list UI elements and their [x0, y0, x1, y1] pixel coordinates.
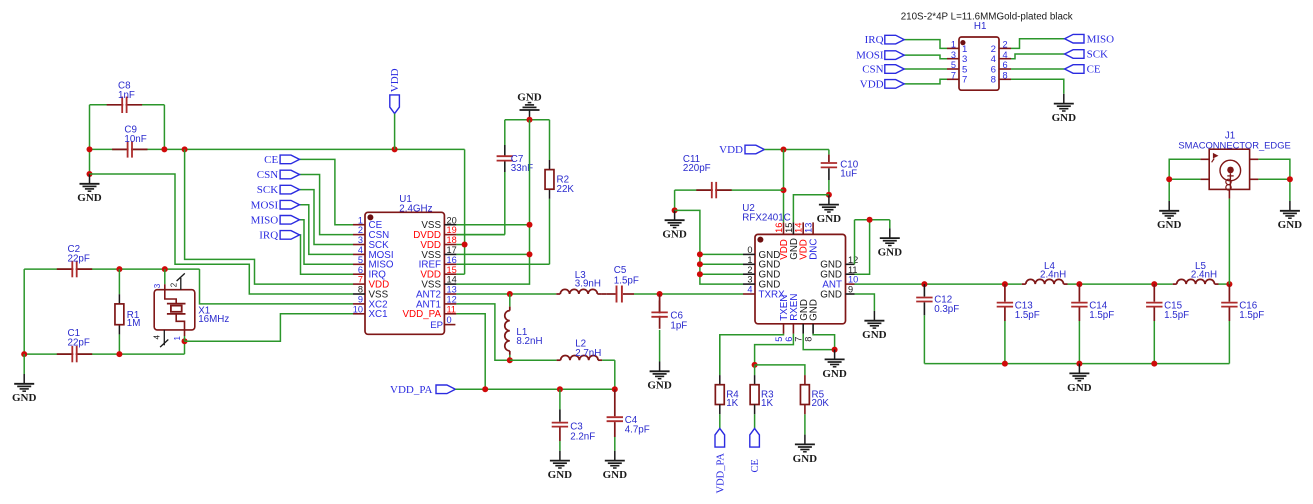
net flag VDD_PA bottom: [715, 428, 725, 447]
svg-text:8: 8: [358, 285, 363, 295]
svg-text:MISO: MISO: [1087, 33, 1115, 45]
wire U2 pin7 GND: [803, 334, 834, 350]
svg-text:EP: EP: [430, 320, 443, 331]
svg-text:GND: GND: [793, 453, 818, 465]
U1 pin 19 DVDD: [444, 234, 456, 236]
wire ANT1 to L2: [456, 304, 509, 360]
svg-text:7: 7: [962, 75, 967, 86]
node GND top junction: [527, 117, 533, 123]
U2 pin 3 GND: [743, 283, 755, 285]
connector J1 SMACONNECTOR_EDGE: [1209, 149, 1249, 189]
svg-text:GND: GND: [1067, 382, 1092, 394]
capacitor C15: [1153, 284, 1155, 302]
capacitor C3: [559, 389, 561, 409]
node junction R3/R5: [752, 362, 758, 368]
svg-text:16MHz: 16MHz: [198, 314, 229, 325]
ground GND bottom left: [23, 374, 25, 384]
capacitor C10: [828, 150, 830, 155]
U2 pin 13 DNC: [812, 222, 814, 234]
svg-text:11: 11: [447, 304, 457, 314]
svg-text:VDD: VDD: [719, 144, 743, 156]
svg-text:2.4nH: 2.4nH: [1040, 269, 1066, 280]
capacitor C4: [614, 389, 616, 416]
svg-text:17: 17: [447, 245, 457, 255]
node junction C12: [921, 281, 927, 287]
inductor L2: [510, 359, 557, 361]
H1 pin 7: [947, 78, 959, 80]
inductor L5: [1177, 279, 1215, 284]
net flag VDD_PA left: [436, 385, 455, 394]
resistor R5: [804, 375, 806, 385]
capacitor C12: [923, 284, 925, 297]
wire XC1 corner to X1 pin1: [184, 341, 186, 354]
U1 pin 9 XC2: [353, 303, 365, 305]
node junction J1 left: [1166, 176, 1172, 182]
U1 pin 17 VSS: [444, 253, 456, 255]
svg-text:2.4nH: 2.4nH: [1191, 269, 1217, 280]
wire rail L5 to J1 drop: [1219, 283, 1230, 285]
resistor R4: [719, 335, 721, 375]
svg-text:GND: GND: [548, 469, 573, 481]
wire XC2/XC1 left vertical: [23, 269, 25, 354]
svg-text:1K: 1K: [726, 398, 738, 409]
net flag MOSI header: [904, 55, 947, 59]
U1 pin 2 CSN: [353, 234, 365, 236]
node junction pin11 drop: [482, 386, 488, 392]
ground GND below C11: [674, 210, 676, 220]
wire VDD rail: [90, 148, 128, 150]
svg-text:2: 2: [747, 265, 752, 275]
wire RF line ANT2: [456, 293, 556, 295]
svg-text:10: 10: [353, 304, 363, 314]
wire junction to R5: [755, 365, 805, 375]
ground GND below pins 7/8: [834, 350, 836, 360]
svg-text:6: 6: [1003, 60, 1008, 70]
node junction bus C13: [1002, 361, 1008, 367]
wire H1 pin8 to GND: [1011, 79, 1064, 94]
svg-text:0: 0: [447, 315, 452, 325]
svg-text:GND: GND: [647, 380, 672, 392]
U1 pin 8 VSS: [353, 293, 365, 295]
ground GND header: [1063, 94, 1065, 104]
svg-text:1.5pF: 1.5pF: [1164, 310, 1189, 321]
node junction bus C14: [1076, 361, 1082, 367]
node junction pin11 rail: [867, 217, 873, 223]
resistor R1: [118, 269, 120, 294]
ground GND J1 left: [1168, 201, 1170, 211]
node junction pin20: [527, 222, 533, 228]
svg-text:GND: GND: [822, 368, 847, 380]
node junction pin0: [697, 251, 703, 257]
svg-text:2.4GHz: 2.4GHz: [399, 203, 432, 214]
H1 pin 3: [947, 58, 959, 60]
node XC2 junction R1: [116, 266, 122, 272]
node GND junction bottom left: [21, 351, 27, 357]
svg-text:VDD_PA: VDD_PA: [715, 453, 726, 494]
wire C5 to U2 TXRX: [634, 293, 743, 295]
ground GND right of U2: [889, 228, 891, 238]
svg-text:9: 9: [848, 285, 853, 295]
capacitor C14: [1078, 284, 1080, 302]
wire MOSI to U1 pin4: [300, 205, 354, 255]
capacitor C7: [504, 145, 506, 156]
svg-text:GND: GND: [817, 213, 842, 225]
wire U2 pin1: [700, 263, 743, 265]
svg-text:VDD_PA: VDD_PA: [403, 309, 442, 320]
wire U2 pin6 RXEN to R3: [755, 334, 794, 365]
resistor R3: [754, 365, 756, 375]
U1 pin 10 XC1: [353, 313, 365, 315]
wire MISO to U1 pin5: [300, 220, 354, 264]
U2 pin 12 GND: [846, 263, 855, 265]
node junction L1 top: [507, 291, 513, 297]
U1 pin 5 MISO: [353, 263, 365, 265]
ground GND bus: [1078, 364, 1080, 374]
ground GND below C6: [659, 362, 661, 372]
svg-text:GND: GND: [517, 92, 542, 104]
svg-text:1K: 1K: [761, 398, 773, 409]
wire VDD to U1 VDD pin7: [185, 149, 353, 284]
wire GND rail drop: [889, 220, 891, 229]
U1 pin 4 MOSI: [353, 253, 365, 255]
svg-text:GND: GND: [12, 392, 37, 404]
U1 pin 1 CE: [353, 224, 365, 226]
svg-text:4: 4: [153, 335, 162, 340]
wire GND mid vertical to VSS pins: [456, 120, 529, 284]
svg-text:5: 5: [774, 337, 784, 342]
svg-text:11: 11: [848, 265, 858, 275]
ic U2 RFX2401C: [755, 234, 846, 323]
svg-text:1.5pF: 1.5pF: [614, 275, 639, 286]
U1 pin 16 IREF: [444, 263, 456, 265]
ground GND top (inverted): [529, 110, 531, 120]
H1 pin 6: [999, 68, 1011, 70]
ic U1 2.4GHz transceiver: [365, 212, 444, 334]
H1 pin 5: [947, 68, 959, 70]
svg-text:1: 1: [173, 336, 182, 341]
wire U1 pin11 to VDD_PA rail: [456, 314, 485, 390]
svg-text:14: 14: [447, 275, 457, 285]
net flag CE header: [1011, 68, 1065, 70]
node junction pins 7/8 GND: [832, 347, 838, 353]
svg-text:XC1: XC1: [369, 309, 388, 320]
U1 pin 6 IRQ: [353, 273, 365, 275]
node junction pin2: [697, 271, 703, 277]
svg-text:4: 4: [1003, 50, 1008, 60]
svg-text:8: 8: [991, 75, 996, 86]
wire U2 pin9 GND: [855, 294, 875, 311]
svg-text:GND: GND: [862, 329, 887, 341]
svg-text:8.2nH: 8.2nH: [516, 336, 542, 347]
node VDD junction C9 left: [87, 146, 93, 152]
U1 pin 18 VDD: [444, 244, 456, 246]
svg-text:20: 20: [447, 215, 457, 225]
svg-text:SMACONNECTOR_EDGE: SMACONNECTOR_EDGE: [1178, 140, 1290, 151]
U1 pin 14 VSS: [444, 283, 456, 285]
capacitor C16: [1228, 284, 1230, 302]
svg-text:1uF: 1uF: [840, 168, 857, 179]
svg-text:16: 16: [774, 223, 784, 233]
wire U2 pin0: [700, 253, 743, 255]
node junction C4/L2: [612, 386, 618, 392]
ground GND below C9: [89, 174, 91, 184]
svg-text:VDD: VDD: [389, 68, 401, 92]
svg-text:CE: CE: [750, 459, 761, 472]
wire VDD_PA rail: [455, 388, 614, 390]
U2 pin 7 GND: [802, 324, 804, 334]
wire GND stem bottom left: [23, 354, 25, 374]
svg-text:1: 1: [951, 40, 956, 50]
U2 pin 6 RXEN: [792, 324, 794, 334]
svg-text:7: 7: [951, 71, 956, 81]
wire GND bus to U2 left pins: [675, 210, 743, 284]
net flag SCK header: [1011, 54, 1065, 59]
H1 pin 1: [947, 47, 959, 49]
svg-text:GND: GND: [1278, 219, 1303, 231]
svg-text:15: 15: [784, 223, 794, 233]
ground GND J1 right: [1289, 201, 1291, 211]
svg-text:1.5pF: 1.5pF: [1239, 310, 1264, 321]
node junction pin18: [462, 242, 468, 248]
U2 pin 14 VDD: [802, 222, 804, 234]
wire XC2 rail: [24, 268, 72, 270]
wire SCK to U1 pin3: [300, 190, 354, 245]
wire L2 down to VDD_PA rail: [614, 360, 616, 389]
wire VDD vertical to U2 pin16: [783, 150, 785, 223]
net flag CSN header: [904, 68, 947, 70]
svg-text:8: 8: [804, 337, 814, 342]
node junction C13: [1002, 281, 1008, 287]
wire U1 pin17 VSS: [456, 253, 529, 255]
U1 pin 3 SCK: [353, 244, 365, 246]
svg-text:12: 12: [848, 255, 858, 265]
wire GND to U1 VSS pin8: [90, 174, 354, 294]
U2 pin 8 GND: [812, 324, 814, 334]
svg-text:SCK: SCK: [1087, 49, 1108, 61]
wire J1 center pin down: [1228, 199, 1230, 285]
power flag VDD: [390, 95, 400, 114]
J1 pin stubs: [1200, 158, 1209, 160]
svg-text:210S-2*4P L=11.6MMGold-plated: 210S-2*4P L=11.6MMGold-plated black: [901, 11, 1073, 22]
svg-text:GND: GND: [662, 229, 687, 241]
crystal X1 pin2 stub: [180, 278, 182, 290]
node junction C10 GND: [826, 192, 832, 198]
U1 pin 13 ANT2: [444, 293, 456, 295]
svg-text:CSN: CSN: [862, 64, 883, 76]
node junction C6: [657, 291, 663, 297]
wire C8 top loop: [90, 104, 123, 106]
svg-text:12: 12: [447, 295, 457, 305]
wire C11 left down: [674, 190, 676, 210]
svg-text:GND: GND: [878, 247, 903, 259]
svg-text:6: 6: [358, 265, 363, 275]
svg-text:CE: CE: [1087, 64, 1101, 76]
node XC1 junction X1 pin1: [182, 338, 188, 344]
svg-text:2.2nF: 2.2nF: [570, 431, 595, 442]
node junction C15: [1151, 281, 1157, 287]
net flag VDD at U2: [745, 145, 764, 154]
capacitor C11: [675, 189, 712, 191]
svg-text:1nF: 1nF: [118, 90, 135, 101]
crystal X1: [164, 269, 166, 284]
wire CSN to U1 pin2: [300, 175, 354, 235]
svg-text:1: 1: [747, 255, 752, 265]
wire C8/C9 left vertical: [89, 105, 91, 174]
svg-text:1pF: 1pF: [670, 320, 687, 331]
U2 pin 4 TXRX: [743, 293, 755, 295]
net flag CE bottom: [750, 428, 760, 447]
ground GND below R5: [804, 435, 806, 445]
H1 pin 4: [999, 58, 1011, 60]
node junction J1 right: [1287, 176, 1293, 182]
inductor L4: [1026, 279, 1064, 284]
svg-text:MOSI: MOSI: [856, 50, 884, 62]
wire XC1 rail: [24, 353, 72, 355]
svg-text:4.7pF: 4.7pF: [625, 425, 650, 436]
capacitor C1: [57, 353, 74, 355]
svg-text:4: 4: [747, 285, 752, 295]
inductor L1: [509, 294, 511, 307]
U1 pin 15 VDD: [444, 273, 456, 275]
wire U2 pin8 GND: [813, 334, 835, 350]
svg-text:4: 4: [358, 245, 363, 255]
wire C7 branch: [504, 120, 506, 156]
U2 pin 10 ANT: [846, 283, 855, 285]
svg-text:8: 8: [1003, 71, 1008, 81]
svg-text:220pF: 220pF: [683, 163, 711, 174]
node junction GND C11: [672, 207, 678, 213]
node junction pin1: [697, 261, 703, 267]
wire VDD flag to C10: [764, 149, 829, 151]
U1 pin 12 ANT1: [444, 303, 456, 305]
wire R2 branch: [549, 120, 551, 160]
net flag MISO header: [1011, 39, 1065, 49]
svg-text:5: 5: [951, 60, 956, 70]
svg-text:0.3pF: 0.3pF: [934, 304, 959, 315]
ground GND below C10: [828, 195, 830, 205]
svg-text:3: 3: [951, 50, 956, 60]
U2 pin 1 GND: [743, 263, 755, 265]
wire XC1 to U1 pin10: [185, 314, 354, 341]
wire U2 pin11 up: [855, 220, 870, 274]
svg-text:13: 13: [447, 285, 457, 295]
node junction C14: [1076, 281, 1082, 287]
U2 pin 0 GND: [743, 253, 755, 255]
svg-text:10: 10: [848, 275, 858, 285]
wire IRQ to U1 pin6: [300, 235, 354, 274]
U1 pin 11 VDD_PA: [444, 313, 456, 315]
svg-text:0: 0: [747, 245, 752, 255]
svg-text:22pF: 22pF: [68, 253, 90, 264]
svg-text:3: 3: [747, 275, 752, 285]
svg-text:VDD: VDD: [860, 79, 884, 91]
svg-text:2.7nH: 2.7nH: [575, 348, 601, 359]
svg-text:GND: GND: [1157, 219, 1182, 231]
svg-text:CE: CE: [264, 154, 278, 166]
capacitor C8: [107, 104, 124, 106]
U2 pin 9 GND: [846, 293, 855, 295]
svg-text:RFX2401C: RFX2401C: [742, 213, 790, 224]
svg-text:2: 2: [1003, 40, 1008, 50]
svg-text:22pF: 22pF: [68, 337, 90, 348]
svg-text:IRQ: IRQ: [865, 34, 884, 46]
capacitor C5: [606, 293, 615, 295]
svg-text:1.5pF: 1.5pF: [1015, 310, 1040, 321]
wire J1 left ground: [1169, 159, 1200, 201]
node XC2 junction X1 pin3: [162, 266, 168, 272]
svg-text:H1: H1: [974, 21, 987, 32]
svg-text:7: 7: [794, 337, 804, 342]
wire VDD drop to pins 18/15: [464, 149, 466, 274]
U1 pin 20 VSS: [444, 224, 456, 226]
U2 pin 16 VDD: [783, 222, 785, 234]
svg-text:14: 14: [794, 223, 804, 233]
svg-text:GND: GND: [1052, 112, 1077, 124]
svg-text:9: 9: [358, 295, 363, 305]
node junction bus C15: [1151, 361, 1157, 367]
U2 pin 11 GND: [846, 273, 855, 275]
svg-text:1: 1: [358, 215, 363, 225]
wire J1 right ground: [1258, 159, 1290, 201]
node junction VDD pin16: [781, 147, 787, 153]
node junction C11 right: [781, 187, 787, 193]
svg-text:13: 13: [804, 223, 814, 233]
svg-text:1M: 1M: [127, 318, 141, 329]
svg-text:18: 18: [447, 235, 457, 245]
capacitor C9: [112, 148, 129, 150]
node VDD junction pin7 branch: [182, 146, 188, 152]
svg-text:7: 7: [358, 275, 363, 285]
svg-text:20K: 20K: [812, 398, 830, 409]
svg-text:3.9nH: 3.9nH: [575, 279, 601, 290]
svg-text:DNC: DNC: [809, 239, 820, 260]
svg-text:19: 19: [447, 225, 457, 235]
capacitor C6: [659, 294, 661, 312]
wire VDD flag stem: [394, 114, 396, 150]
node VDD junction flag: [392, 146, 398, 152]
node junction L1 bottom: [507, 357, 513, 363]
svg-text:IRQ: IRQ: [259, 230, 278, 242]
wire U2 pin5 TXEN to R4: [720, 334, 784, 375]
ground GND below C4: [614, 451, 616, 461]
capacitor C2: [57, 268, 74, 270]
svg-text:3: 3: [358, 235, 363, 245]
U2 pin 15 GND: [792, 222, 794, 234]
net flag VDD header: [904, 79, 947, 84]
svg-text:GND: GND: [809, 299, 820, 321]
net flag IRQ header: [904, 40, 947, 49]
wire ANT rail: [855, 283, 1022, 285]
svg-text:22K: 22K: [557, 184, 575, 195]
wire L3 to C5: [601, 293, 606, 295]
U2 pin 2 GND: [743, 273, 755, 275]
ground GND below C3: [559, 451, 561, 461]
U1 pin 7 VDD: [353, 283, 365, 285]
svg-text:3: 3: [153, 283, 162, 288]
svg-text:GND: GND: [820, 289, 842, 300]
wire U2 pin2: [700, 273, 743, 275]
node junction pin17: [527, 251, 533, 257]
wire C8 right vertical: [163, 105, 165, 150]
svg-text:16: 16: [447, 255, 457, 265]
svg-text:5: 5: [358, 255, 363, 265]
ground GND below pin9: [873, 311, 875, 321]
svg-text:GND: GND: [603, 469, 628, 481]
svg-text:10nF: 10nF: [124, 134, 146, 145]
node XC1 junction R1 bottom: [116, 351, 122, 357]
capacitor C13: [1004, 284, 1006, 302]
wire GND rail above U2: [855, 219, 890, 221]
